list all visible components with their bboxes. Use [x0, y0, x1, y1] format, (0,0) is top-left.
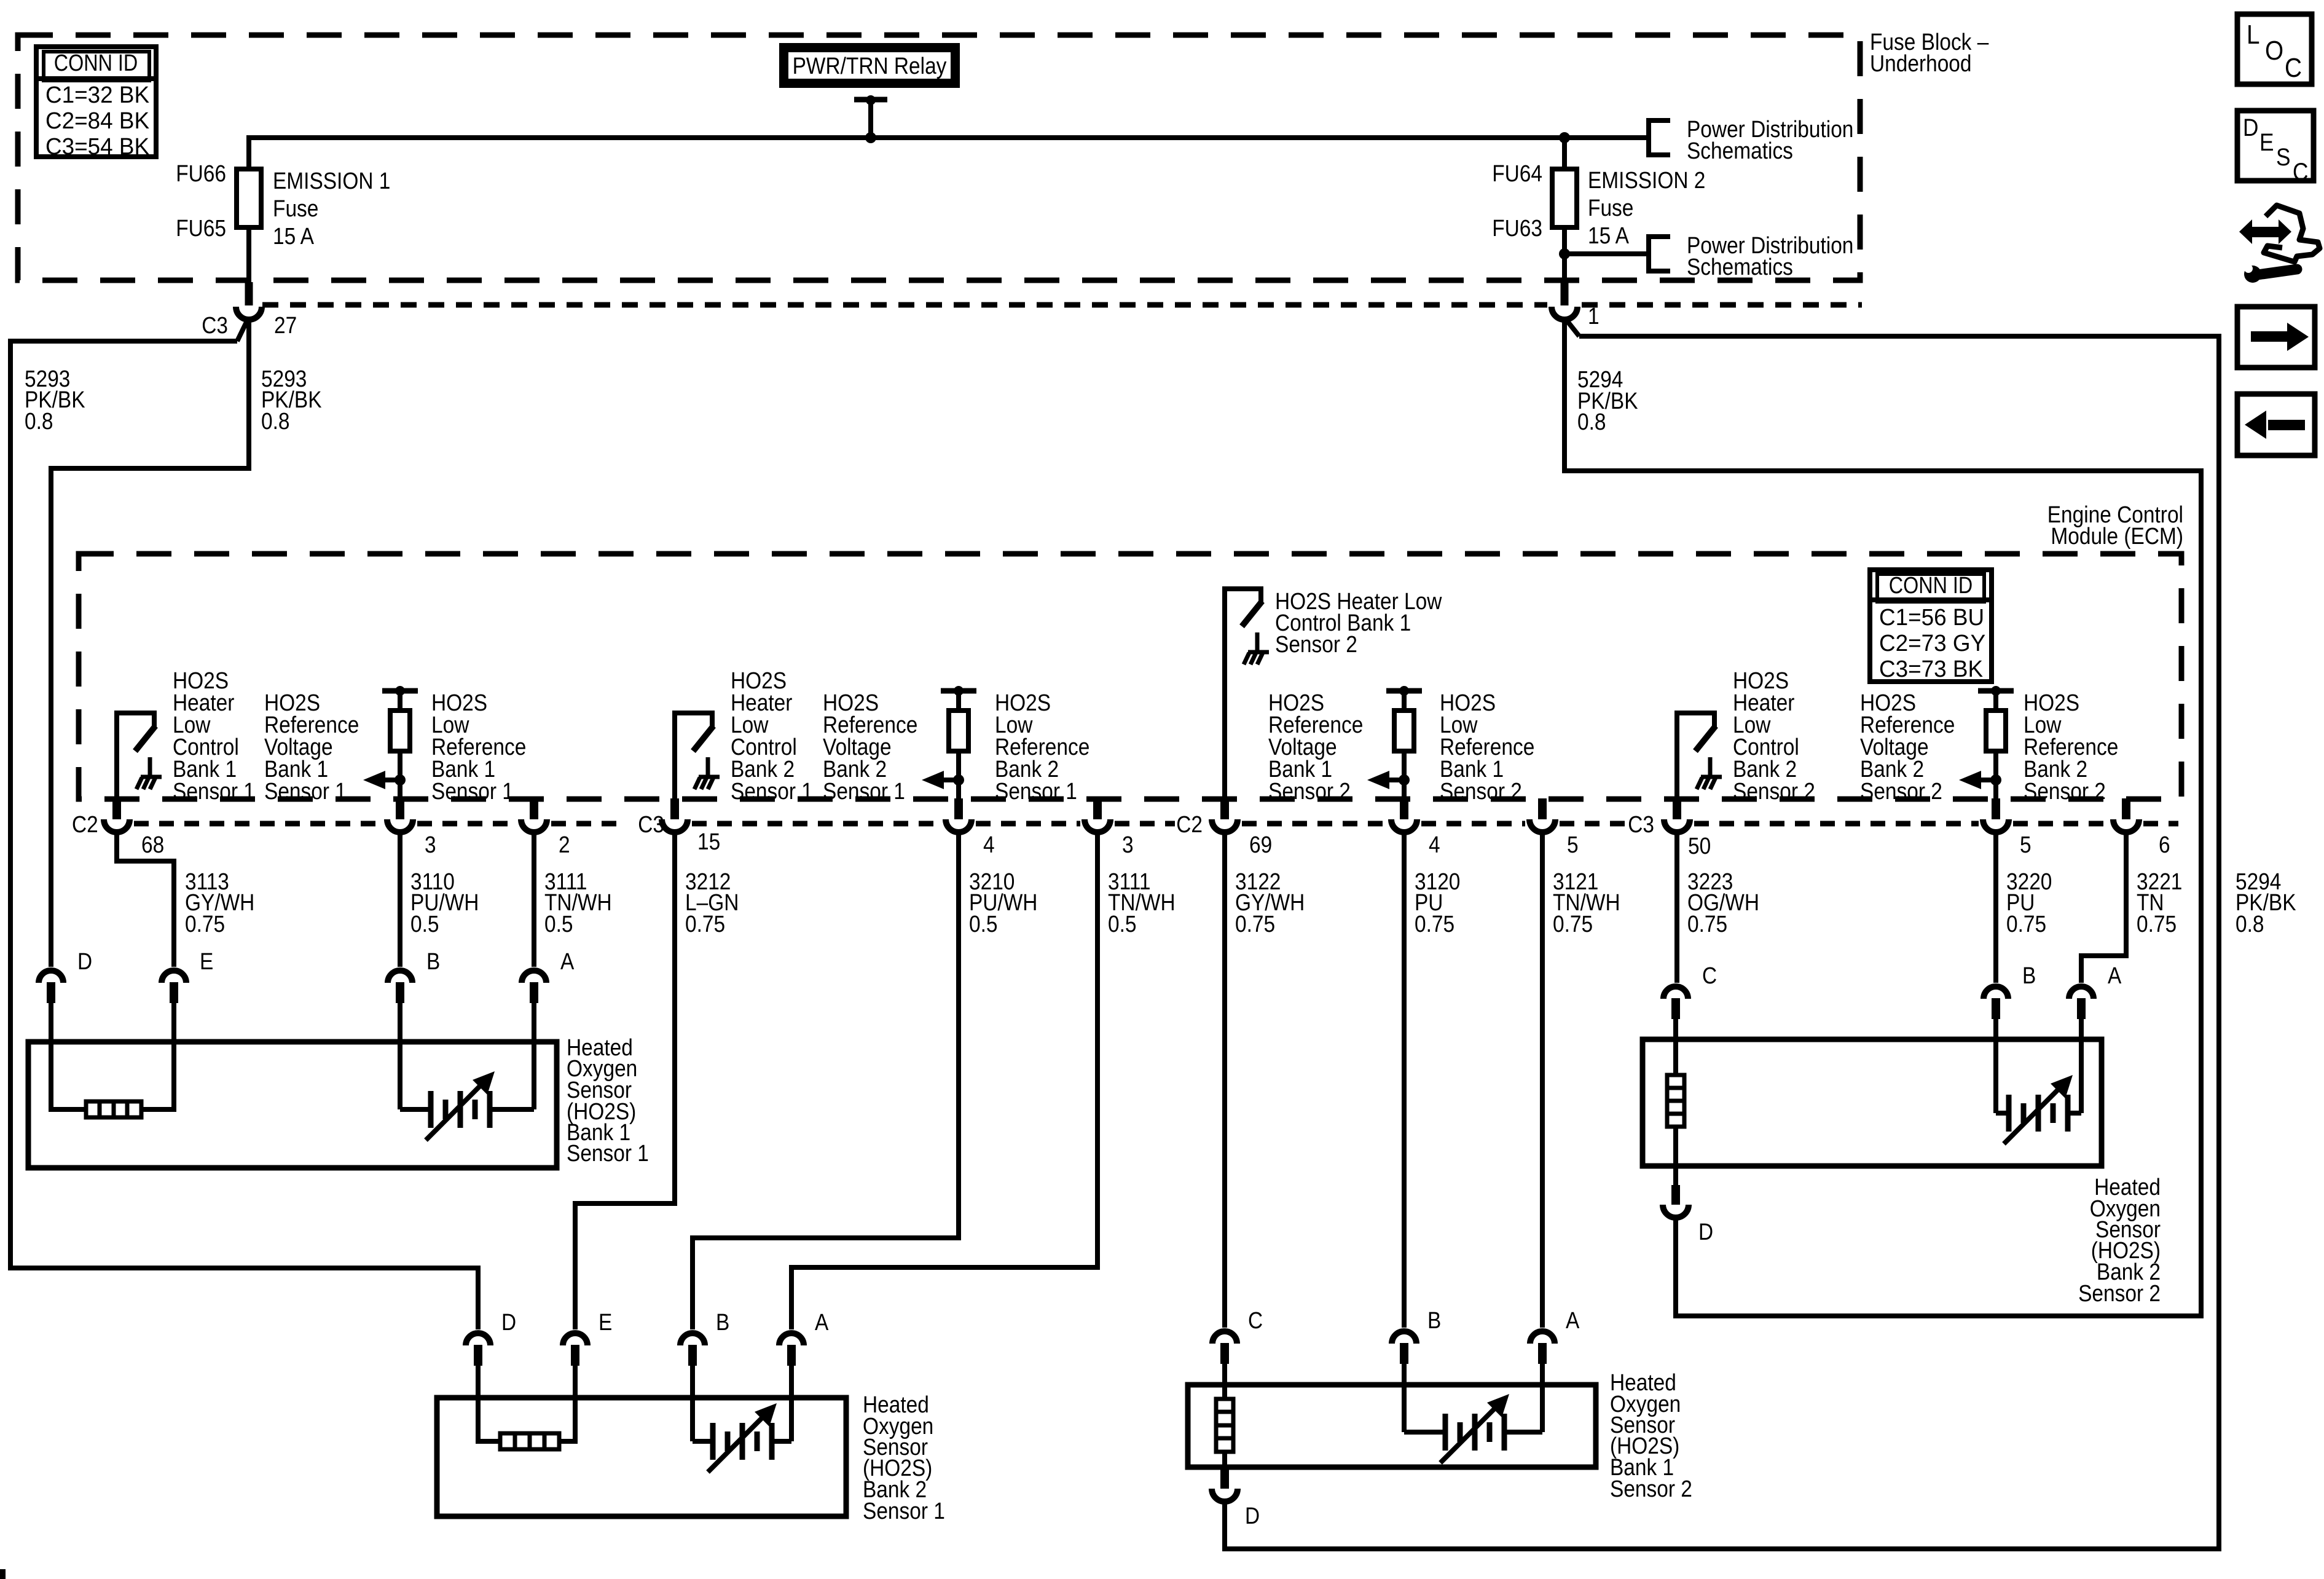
svg-text:Fuse: Fuse — [273, 196, 318, 222]
HO2S B2S1 connector D — [466, 1333, 490, 1345]
svg-text:A: A — [815, 1310, 829, 1336]
svg-text:C1=32 BK: C1=32 BK — [45, 82, 149, 108]
svg-text:EMISSION 2: EMISSION 2 — [1588, 168, 1705, 194]
B1S2 heater element (vertical) — [1222, 1363, 1227, 1399]
ECM connector pin 3 (B1S1) — [396, 798, 404, 819]
svg-text:0.8: 0.8 — [2236, 912, 2264, 937]
svg-text:D: D — [1698, 1219, 1713, 1245]
svg-text:Sensor 1: Sensor 1 — [431, 779, 514, 805]
svg-text:0.75: 0.75 — [1553, 912, 1593, 937]
svg-text:Schematics: Schematics — [1687, 254, 1793, 280]
svg-text:C3=73 BK: C3=73 BK — [1879, 656, 1983, 682]
svg-text:EMISSION 1: EMISSION 1 — [273, 168, 390, 194]
CONN ID table (ECM) — [1870, 570, 1992, 682]
svg-text:Sensor 1: Sensor 1 — [173, 779, 255, 805]
svg-text:0.8: 0.8 — [261, 409, 290, 435]
svg-text:Sensor 1: Sensor 1 — [567, 1141, 649, 1167]
page edge mark — [0, 1569, 6, 1579]
svg-text:68: 68 — [141, 832, 164, 858]
svg-text:0.75: 0.75 — [1687, 912, 1727, 937]
wire 3212 pin15 to B2S1 E — [575, 833, 675, 1329]
wire 3210 pin4 to B2S1 B — [693, 833, 959, 1329]
svg-text:PWR/TRN Relay: PWR/TRN Relay — [793, 53, 947, 79]
service tool icon (double arrow and wrench) — [2249, 227, 2280, 237]
HO2S B1S1 connector D — [39, 971, 63, 983]
wire 3121 pin5 to B1S2 A — [1540, 833, 1545, 1328]
svg-text:C1=56 BU: C1=56 BU — [1879, 605, 1984, 631]
svg-text:Fuse: Fuse — [1588, 195, 1633, 221]
HO2S B2S2 connector B — [1984, 986, 2008, 999]
HO2S B1S2 connector B — [1392, 1331, 1416, 1344]
svg-text:Sensor 2: Sensor 2 — [1733, 779, 1815, 805]
switch HO2S heater low control B2S1 — [672, 713, 677, 801]
HO2S B1S1 connector A — [522, 971, 546, 983]
power distribution tap upper — [1649, 120, 1670, 155]
HO2S B1S1 box — [28, 1042, 557, 1168]
HO2S B2S1 connector A — [779, 1333, 804, 1345]
HO2S B2S2 connector C — [1663, 986, 1688, 999]
resistor HO2S reference voltage B1S1 — [382, 688, 418, 694]
svg-text:D: D — [2243, 114, 2258, 141]
svg-text:0.8: 0.8 — [1577, 409, 1606, 435]
junction node below FU64 — [1559, 248, 1570, 259]
bus wire from FU66 to power distribution tap — [249, 138, 1649, 169]
svg-text:3: 3 — [1122, 832, 1134, 858]
svg-text:CONN ID: CONN ID — [1889, 573, 1973, 599]
svg-text:A: A — [1566, 1308, 1580, 1334]
svg-text:15 A: 15 A — [273, 224, 315, 250]
wire FU64 to lower tap — [1564, 251, 1649, 256]
svg-text:C3=54 BK: C3=54 BK — [45, 134, 149, 160]
wire 3113 pin68 to B1S1 E — [117, 833, 174, 967]
svg-text:C3: C3 — [638, 812, 664, 838]
svg-text:FU65: FU65 — [176, 216, 226, 242]
B1S1 heater element — [51, 1002, 86, 1109]
wire 3223 pin50 to B2S2 C — [1674, 833, 1679, 983]
svg-text:D: D — [77, 949, 92, 975]
HO2S B1S2 connector C — [1212, 1331, 1237, 1344]
wire relay to bus — [854, 97, 887, 103]
ECM connector pin 5 (B1S2) — [1538, 798, 1547, 819]
CONN ID table (fuse block) — [36, 47, 156, 157]
resistor HO2S reference voltage B2S2 — [1978, 688, 2014, 694]
svg-text:FU64: FU64 — [1492, 161, 1542, 187]
wire 3221 pin6 to B2S2 A — [2081, 833, 2126, 983]
svg-text:Module (ECM): Module (ECM) — [2051, 524, 2183, 549]
svg-text:Sensor 2: Sensor 2 — [1860, 779, 1942, 805]
svg-text:C2=73 GY: C2=73 GY — [1879, 631, 1985, 656]
svg-text:Underhood: Underhood — [1870, 51, 1972, 77]
svg-text:0.5: 0.5 — [1108, 912, 1137, 937]
svg-text:CONN ID: CONN ID — [54, 50, 138, 76]
B2S1 sense cell (variable battery) — [690, 1364, 695, 1441]
ECM connector C2 pin 68 — [112, 798, 121, 819]
fuse block - underhood dashed box — [18, 35, 1860, 280]
svg-text:S: S — [2276, 144, 2291, 171]
svg-text:A: A — [560, 949, 575, 975]
svg-text:C3: C3 — [1628, 812, 1654, 838]
svg-text:6: 6 — [2159, 832, 2170, 858]
svg-text:Sensor 2: Sensor 2 — [2024, 779, 2106, 805]
svg-text:D: D — [1245, 1503, 1260, 1529]
back arrow icon box — [2237, 394, 2315, 455]
ECM connector C3 pin 15 — [670, 798, 679, 819]
switch HO2S heater low control B1S2 (tall) — [1222, 589, 1227, 801]
svg-text:C2: C2 — [1176, 812, 1203, 838]
junction node at FU64 branch — [1559, 132, 1570, 143]
wire 3110 pin3 to B1S1 B — [398, 833, 402, 967]
wire 3122 pin69 to B1S2 C — [1222, 833, 1227, 1328]
svg-text:15 A: 15 A — [1588, 223, 1630, 249]
switch HO2S heater low control B2S2 — [1674, 713, 1679, 801]
wire 3111 pin2 to B1S1 A — [532, 833, 536, 967]
svg-text:0.5: 0.5 — [544, 912, 573, 937]
wire 3120 pin4 to B1S2 B — [1402, 833, 1407, 1328]
HO2S B1S1 connector B — [388, 971, 412, 983]
svg-text:B: B — [426, 949, 440, 975]
svg-text:E: E — [599, 1310, 612, 1336]
svg-text:1: 1 — [1588, 304, 1600, 329]
wire 5294 pin1 to right side down to HO2S B1S2 pin D — [1225, 336, 2219, 1549]
svg-text:Sensor 1: Sensor 1 — [731, 779, 813, 805]
svg-text:C2=84 BK: C2=84 BK — [45, 108, 149, 134]
svg-text:C: C — [1702, 963, 1717, 989]
B2S1 heater element — [478, 1364, 500, 1441]
ECM connector pin 3 (B2S1 low ref) — [1093, 798, 1102, 819]
B2S2 heater element (vertical) — [1673, 1018, 1678, 1075]
ECM connector C2 pin 69 — [1220, 798, 1229, 819]
resistor HO2S reference voltage B1S2 — [1386, 688, 1422, 694]
svg-text:Sensor 1: Sensor 1 — [995, 779, 1077, 805]
wire 5293 branch to HO2S B2S1 pin D — [10, 341, 478, 1329]
svg-text:69: 69 — [1249, 832, 1272, 858]
svg-text:C3: C3 — [202, 313, 228, 339]
svg-text:O: O — [2265, 36, 2283, 66]
svg-text:0.75: 0.75 — [2137, 912, 2177, 937]
Engine Control Module dashed box — [79, 554, 2181, 799]
svg-text:A: A — [2108, 963, 2122, 989]
svg-text:Sensor 2: Sensor 2 — [2078, 1281, 2161, 1307]
svg-text:Sensor 1: Sensor 1 — [863, 1498, 945, 1524]
wire 3220 pin5 to B2S2 B — [1993, 833, 1998, 983]
wire B1S2 D to bottom bus — [1222, 1503, 1227, 1551]
svg-text:Sensor 2: Sensor 2 — [1275, 632, 1357, 658]
HO2S B1S2 box — [1188, 1385, 1596, 1467]
forward arrow icon box — [2237, 307, 2315, 368]
PWR/TRN Relay box — [779, 43, 960, 88]
svg-text:Sensor 2: Sensor 2 — [1268, 779, 1351, 805]
svg-text:FU66: FU66 — [176, 161, 226, 187]
svg-text:D: D — [501, 1310, 516, 1336]
svg-text:15: 15 — [697, 829, 720, 855]
svg-text:C: C — [2293, 159, 2308, 186]
svg-text:0.75: 0.75 — [185, 912, 225, 937]
svg-text:Sensor 1: Sensor 1 — [264, 779, 347, 805]
svg-text:27: 27 — [274, 313, 297, 339]
ECM connector pin 5 (B2S2) — [1992, 798, 2000, 819]
svg-text:0.5: 0.5 — [410, 912, 439, 937]
ECM connector pin 2 (B1S1) — [530, 798, 538, 819]
svg-text:C: C — [1248, 1308, 1263, 1334]
HO2S B2S2 box — [1643, 1039, 2102, 1166]
HO2S B1S2 connector D below box — [1220, 1469, 1229, 1489]
svg-text:B: B — [2022, 963, 2036, 989]
connector C3 pin 27 (fuse block) — [245, 282, 253, 305]
svg-text:B: B — [1427, 1308, 1441, 1334]
svg-text:E: E — [200, 949, 213, 975]
HO2S B1S2 connector A — [1530, 1331, 1555, 1344]
svg-text:4: 4 — [983, 832, 995, 858]
ECM connector pin 4 (B1S2) — [1400, 798, 1408, 819]
HO2S B2S2 connector A — [2069, 986, 2094, 999]
connector C3 pin 1 (fuse block) — [1561, 282, 1569, 305]
HO2S B2S1 connector E — [563, 1333, 587, 1345]
svg-text:50: 50 — [1688, 833, 1711, 859]
HO2S B2S1 connector B — [680, 1333, 705, 1345]
B1S1 sense cell (variable battery) — [398, 1002, 402, 1109]
B2S2 sense cell (variable battery) — [1993, 1018, 1998, 1113]
power distribution tap lower — [1649, 237, 1670, 271]
fuse FU64 EMISSION 2 — [1552, 169, 1577, 227]
ECM connector dotted line — [134, 821, 383, 827]
wire 3111 pin3 to B2S1 A — [791, 833, 1097, 1329]
ECM connector C3 pin 50 — [1673, 798, 1681, 819]
svg-text:3: 3 — [425, 832, 436, 858]
wire 5294 branch to HO2S B2S2 pin D — [1564, 320, 2201, 1316]
HO2S B1S1 connector E — [162, 971, 186, 983]
DESC icon box — [2237, 111, 2314, 181]
svg-text:Sensor 1: Sensor 1 — [823, 779, 905, 805]
svg-text:2: 2 — [559, 832, 570, 858]
svg-text:4: 4 — [1429, 832, 1440, 858]
svg-text:FU63: FU63 — [1492, 216, 1542, 242]
svg-text:5: 5 — [1567, 832, 1579, 858]
svg-text:L: L — [2247, 20, 2260, 50]
svg-text:0.75: 0.75 — [1235, 912, 1275, 937]
svg-text:5: 5 — [2020, 832, 2032, 858]
svg-text:0.75: 0.75 — [2006, 912, 2046, 937]
svg-text:0.5: 0.5 — [969, 912, 998, 937]
fuse FU66 EMISSION 1 — [237, 169, 261, 227]
B1S2 sense cell (variable battery) — [1402, 1363, 1407, 1432]
LOC icon box — [2237, 14, 2312, 84]
resistor HO2S reference voltage B2S1 — [941, 688, 976, 694]
svg-text:0.75: 0.75 — [1415, 912, 1454, 937]
switch HO2S heater low control B1S1 — [114, 713, 119, 801]
wire 5293 pin27 to HO2S B1S1 pin D — [51, 320, 249, 967]
wire B2S2 D to 5294 return — [1673, 1219, 1678, 1318]
svg-text:C2: C2 — [72, 812, 98, 838]
connector dotted line under fuse block — [262, 302, 1547, 308]
ECM connector pin 4 (B2S1) — [954, 798, 963, 819]
HO2S B2S2 connector D below box — [1671, 1185, 1680, 1205]
HO2S B2S1 box — [437, 1398, 846, 1516]
svg-text:Schematics: Schematics — [1687, 138, 1793, 164]
svg-text:0.75: 0.75 — [685, 912, 725, 937]
svg-text:B: B — [716, 1310, 729, 1336]
svg-text:C: C — [2285, 53, 2302, 83]
svg-text:Sensor 2: Sensor 2 — [1440, 779, 1522, 805]
ECM connector pin 6 (B2S2) — [2122, 798, 2130, 819]
svg-text:0.8: 0.8 — [25, 409, 53, 435]
svg-text:E: E — [2259, 129, 2274, 156]
svg-text:Sensor 2: Sensor 2 — [1610, 1476, 1692, 1502]
